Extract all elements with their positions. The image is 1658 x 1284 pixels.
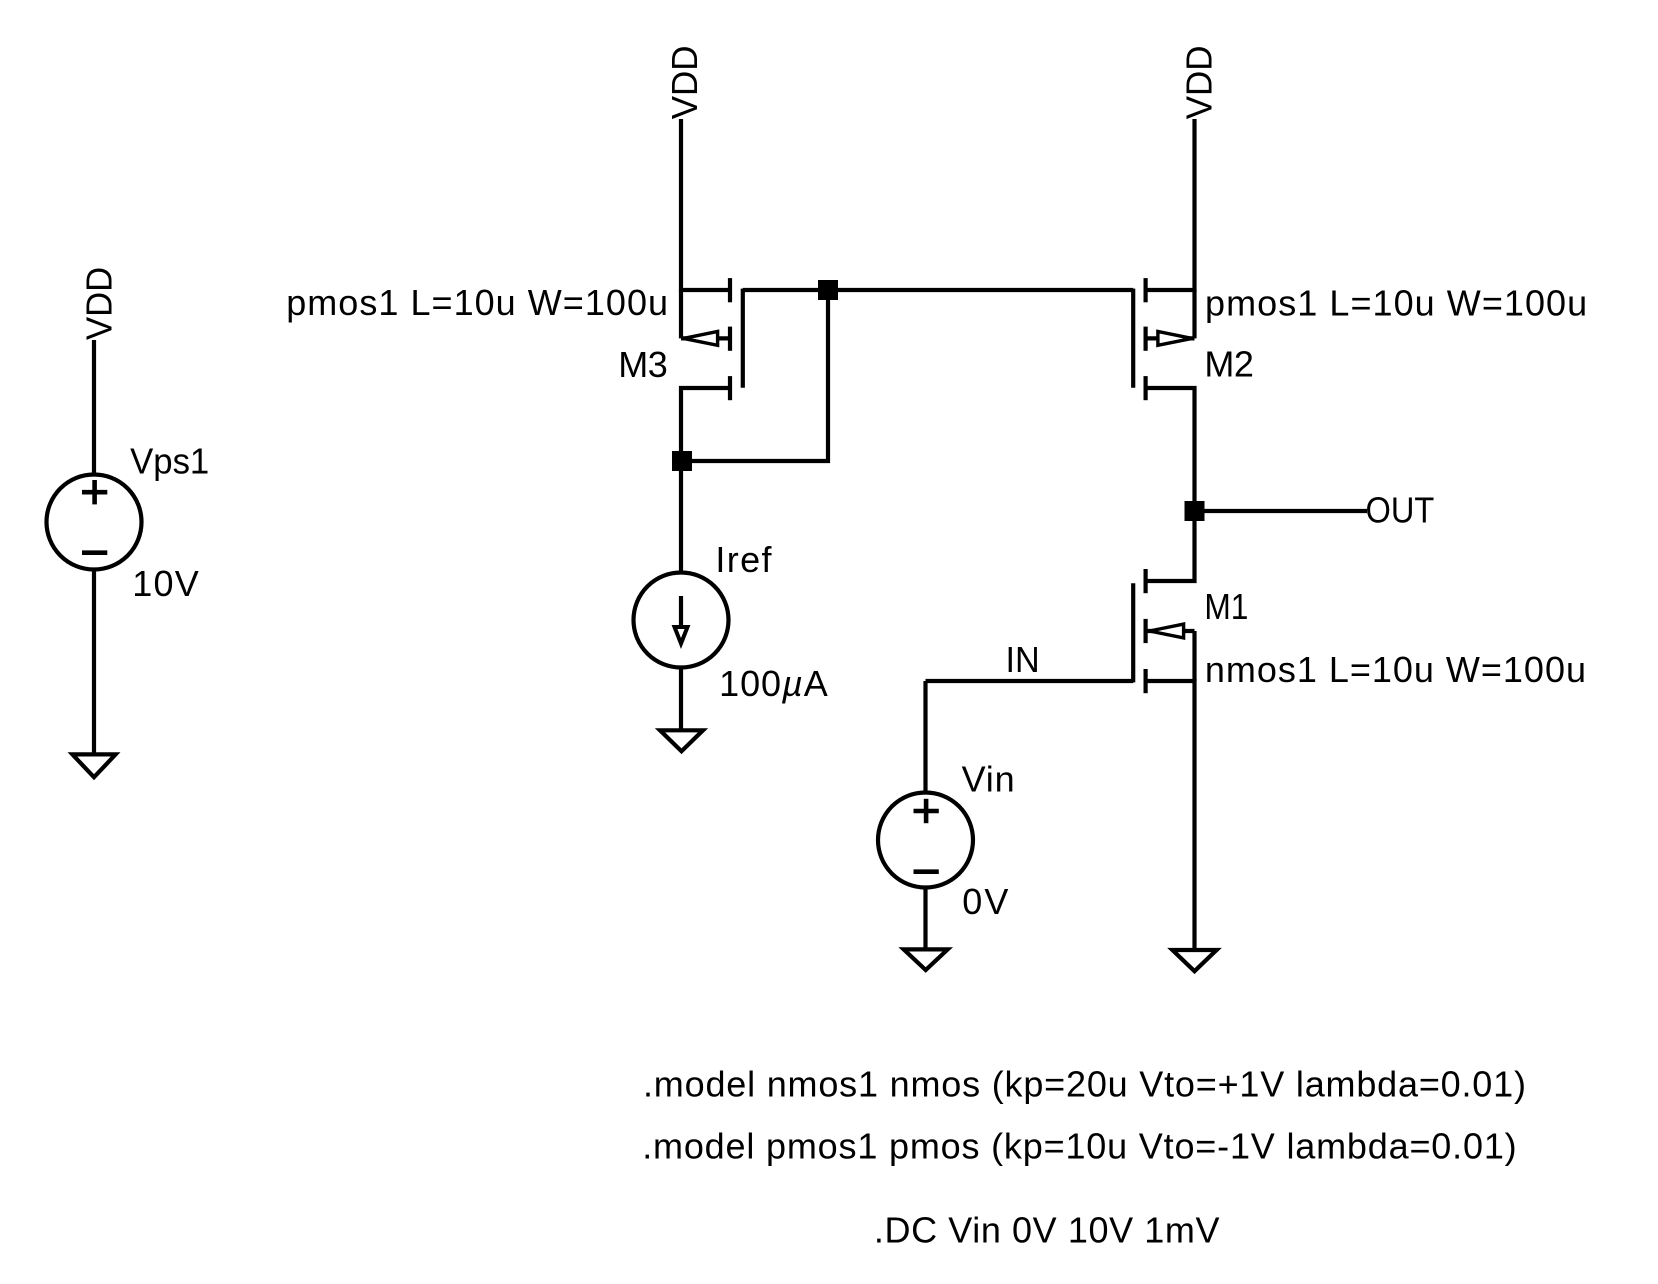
svg-text:.DC Vin 0V 10V 1mV: .DC Vin 0V 10V 1mV: [874, 1210, 1220, 1251]
svg-text:OUT: OUT: [1366, 491, 1435, 531]
svg-text:10V: 10V: [132, 563, 200, 604]
svg-text:M2: M2: [1204, 344, 1253, 385]
svg-text:pmos1 L=10u W=100u: pmos1 L=10u W=100u: [286, 282, 669, 323]
svg-text:M3: M3: [618, 344, 667, 385]
svg-text:Vin: Vin: [962, 759, 1016, 800]
svg-text:.model nmos1 nmos (kp=20u Vto=: .model nmos1 nmos (kp=20u Vto=+1V lambda…: [643, 1063, 1527, 1104]
svg-text:VDD: VDD: [80, 267, 120, 340]
svg-text:Vps1: Vps1: [130, 442, 209, 482]
svg-text:IN: IN: [1006, 640, 1040, 680]
svg-text:nmos1 L=10u W=100u: nmos1 L=10u W=100u: [1205, 649, 1587, 690]
svg-text:VDD: VDD: [1179, 46, 1220, 120]
svg-text:.model pmos1 pmos (kp=10u Vto=: .model pmos1 pmos (kp=10u Vto=-1V lambda…: [642, 1125, 1517, 1166]
svg-text:0V: 0V: [962, 881, 1010, 922]
svg-text:Iref: Iref: [715, 539, 772, 580]
svg-text:pmos1 L=10u W=100u: pmos1 L=10u W=100u: [1205, 282, 1588, 323]
svg-text:VDD: VDD: [665, 46, 706, 120]
svg-text:M1: M1: [1204, 587, 1248, 627]
svg-text:100µA: 100µA: [719, 663, 829, 704]
